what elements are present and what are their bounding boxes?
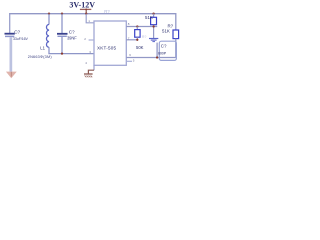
ground (pin 4) bbox=[84, 73, 93, 75]
node junction dot L1 top bbox=[48, 13, 50, 15]
wire net to pin 3 bbox=[48, 53, 94, 55]
arrow annotation head bbox=[6, 72, 17, 79]
pin 4 wire bbox=[93, 65, 95, 70]
wire to pin 1 bbox=[86, 14, 94, 23]
node junction dot R50K bottom bbox=[136, 39, 138, 41]
resistor R2 51K right bbox=[175, 13, 177, 30]
wire top rail bbox=[9, 13, 176, 15]
arrow annotation shaft bbox=[10, 37, 13, 72]
svg-text:3V-12V: 3V-12V bbox=[69, 0, 95, 9]
node junction dot power/rail bbox=[85, 13, 87, 15]
capacitor C3 wire bbox=[156, 43, 158, 58]
node junction dot C2/pin3 bbox=[61, 52, 63, 54]
svg-text:51K: 51K bbox=[162, 29, 170, 34]
svg-text:C?: C? bbox=[14, 30, 20, 35]
wire drop to L1 bbox=[48, 14, 50, 25]
wire C2 bottom bbox=[61, 37, 63, 54]
resistor R 50K bbox=[136, 27, 138, 30]
op-amp U1 XKT-505 box bbox=[94, 21, 126, 65]
svg-text:R?: R? bbox=[142, 35, 146, 39]
wire power drop bbox=[85, 10, 87, 14]
wire L1 bottom bbox=[48, 47, 50, 53]
svg-text:51K: 51K bbox=[145, 15, 153, 20]
svg-text:2N663Φ(3M): 2N663Φ(3M) bbox=[28, 55, 53, 59]
resistor R1 51K bbox=[152, 13, 154, 15]
svg-text:C?: C? bbox=[69, 29, 75, 34]
pin 8 wire bbox=[126, 26, 157, 28]
svg-text:XKT-505: XKT-505 bbox=[97, 46, 117, 51]
pin 7 stub bbox=[126, 39, 137, 41]
svg-text:R?: R? bbox=[104, 9, 110, 14]
capacitor C1 plates bbox=[5, 33, 15, 35]
node junction dot C2 top bbox=[61, 13, 63, 15]
svg-text:33uF/16V: 33uF/16V bbox=[13, 37, 28, 41]
svg-text:C?: C? bbox=[161, 43, 167, 48]
svg-text:L1: L1 bbox=[40, 46, 45, 51]
node junction dot pin8/R50K bbox=[136, 25, 138, 27]
inductor L1 coil bbox=[46, 24, 49, 47]
pin 2 stub bbox=[89, 39, 94, 41]
svg-text:600P: 600P bbox=[158, 52, 167, 56]
capacitor C2 plates bbox=[57, 33, 68, 35]
svg-text:50K: 50K bbox=[136, 45, 144, 50]
pin 6 wire bbox=[126, 57, 176, 59]
wire left drop to C1 bbox=[9, 13, 11, 33]
power terminal bar bbox=[80, 8, 91, 10]
capacitor C3 box bbox=[159, 41, 176, 60]
wire drop to C2 bbox=[61, 14, 63, 33]
ground (R1) bbox=[149, 38, 158, 40]
pin 5 stub bbox=[126, 60, 132, 62]
svg-text:39NF: 39NF bbox=[67, 36, 77, 41]
